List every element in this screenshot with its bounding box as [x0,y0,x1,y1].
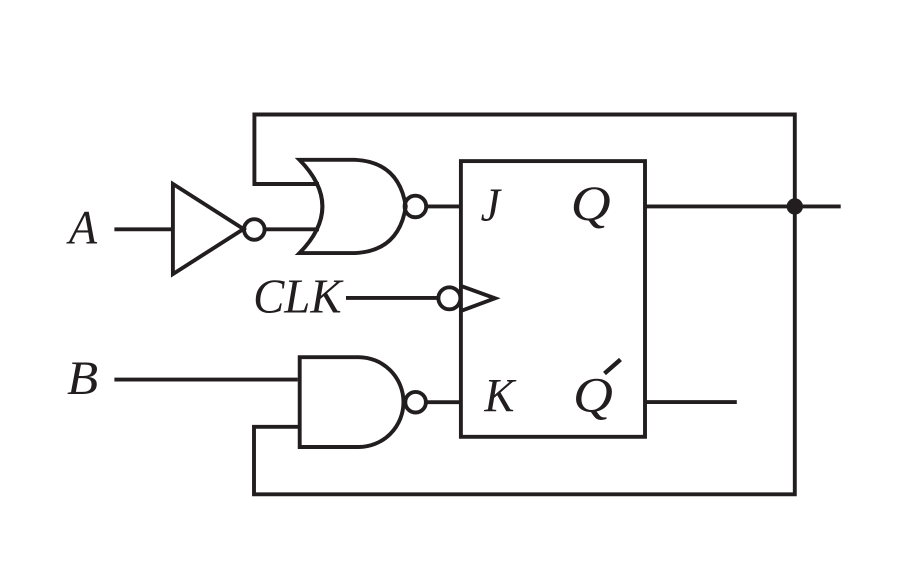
svg-text:Q: Q [573,368,613,423]
wire NAND to K [425,400,462,404]
clock edge triangle [462,286,495,310]
svg-text:A: A [66,202,97,255]
JK flip-flop U3 box [461,161,645,437]
wire Q-prime output [645,400,737,404]
svg-text:CLK: CLK [253,270,344,324]
wire inverter to NOR [263,227,319,231]
wire A input [114,227,171,231]
NOR gate U2 output bubble [405,196,427,218]
NAND gate U4 output bubble [405,392,426,413]
CLK inversion bubble [438,287,460,309]
wire NOR to J [426,204,462,208]
wire B input [114,378,297,382]
junction dot on Q feedback [787,198,803,214]
wire CLK [346,296,439,300]
NAND gate U4 body [300,357,404,447]
svg-text:B: B [67,351,98,404]
wire Q output [645,204,841,208]
prime mark on Q' [605,360,621,374]
inverter U1 output bubble [244,219,265,240]
inverter U1 triangle [173,184,244,274]
svg-text:J: J [481,178,503,231]
NOR gate U2 body [299,160,405,253]
wire feedback loop (Q to NOR input, bottom to NAND input) [254,115,795,495]
svg-text:Q: Q [571,176,611,231]
svg-text:K: K [483,369,517,423]
